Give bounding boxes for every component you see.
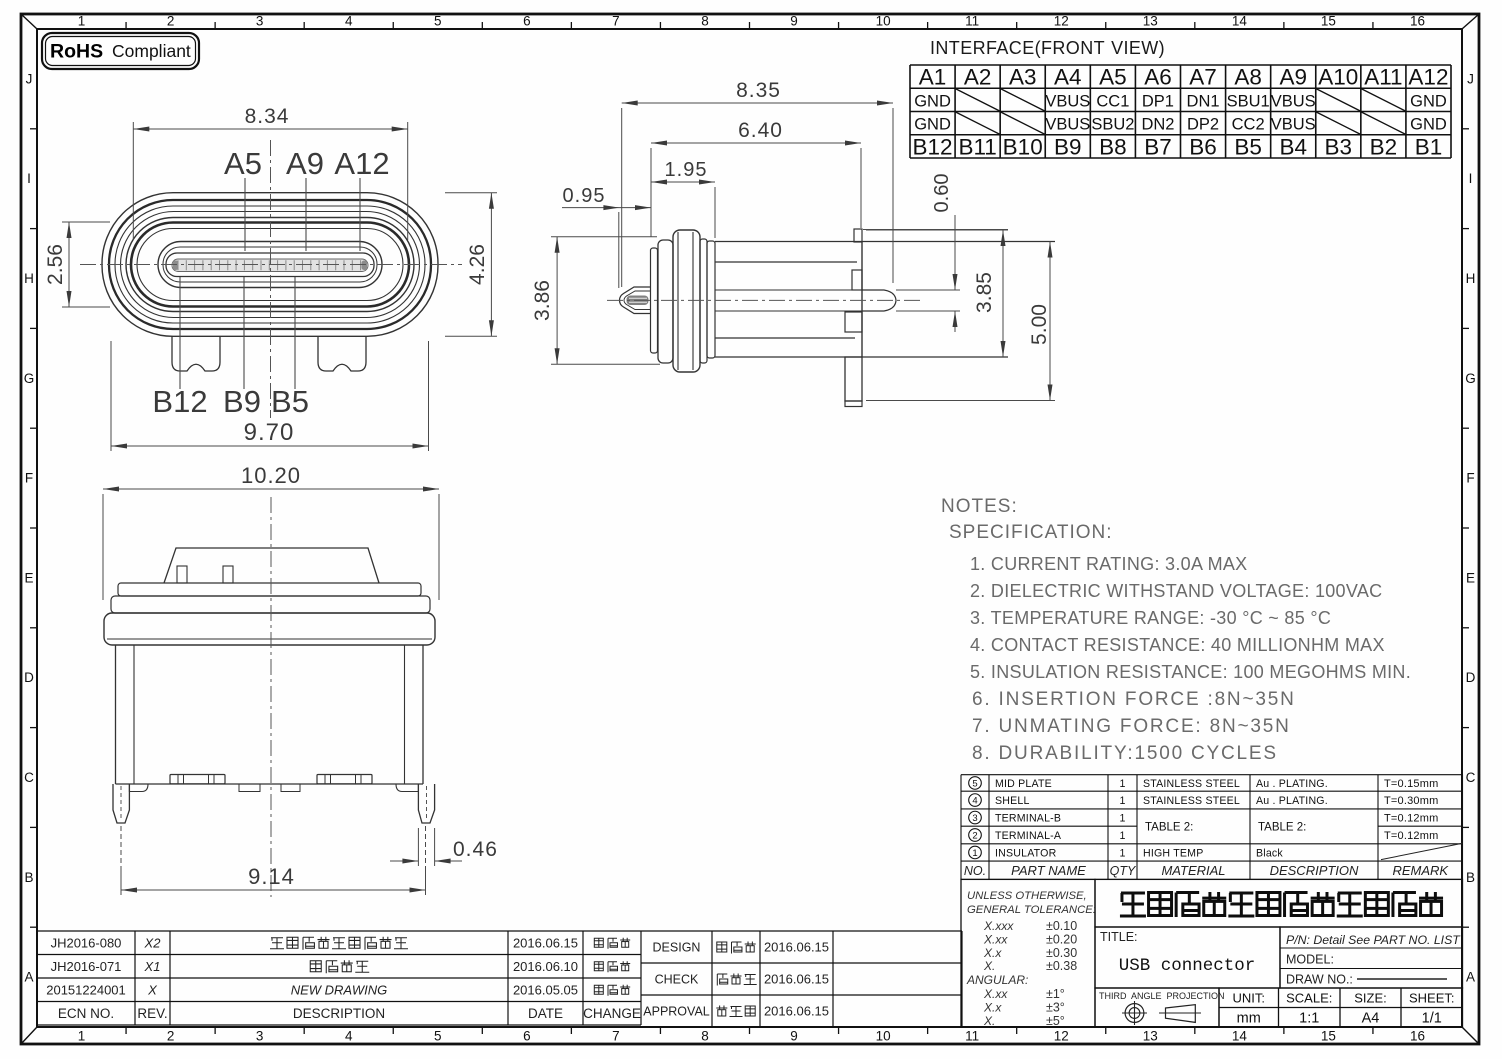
front view shell ring 3 bbox=[115, 206, 425, 323]
svg-text:2: 2 bbox=[167, 14, 175, 29]
parts row 1 INSULATOR bbox=[969, 846, 982, 859]
svg-text:C: C bbox=[1466, 770, 1476, 785]
svg-text:SIZE:: SIZE: bbox=[1354, 991, 1387, 1006]
svg-text:X.x: X.x bbox=[983, 1000, 1002, 1014]
dimension 1.95 bbox=[714, 187, 716, 238]
svg-text:B9: B9 bbox=[223, 384, 261, 419]
svg-text:DESCRIPTION: DESCRIPTION bbox=[1270, 863, 1359, 878]
svg-text:10.20: 10.20 bbox=[241, 463, 301, 488]
svg-text:8. DURABILITY:1500 CYCLES: 8. DURABILITY:1500 CYCLES bbox=[972, 743, 1278, 764]
svg-text:G: G bbox=[24, 371, 35, 386]
title cell bbox=[1095, 927, 1280, 988]
svg-text:CHANGE: CHANGE bbox=[583, 1006, 641, 1021]
front view tongue bbox=[166, 253, 374, 277]
dimension 8.34 bbox=[132, 122, 134, 240]
svg-text:GENERAL TOLERANCE:: GENERAL TOLERANCE: bbox=[967, 904, 1096, 916]
svg-text:I: I bbox=[1469, 171, 1473, 186]
svg-text:INTERFACE(FRONT VIEW): INTERFACE(FRONT VIEW) bbox=[930, 38, 1165, 58]
svg-text:±0.30: ±0.30 bbox=[1046, 946, 1077, 960]
bottom view body sides bbox=[115, 645, 117, 784]
svg-text:H: H bbox=[1466, 271, 1476, 286]
svg-text:1: 1 bbox=[78, 14, 86, 29]
svg-text:A: A bbox=[1466, 970, 1475, 985]
svg-text:Black: Black bbox=[1256, 847, 1283, 859]
parts row 5 MID PLATE bbox=[969, 777, 982, 790]
svg-text:6.40: 6.40 bbox=[738, 119, 783, 142]
front view shell ring 1 (outer) bbox=[102, 193, 438, 337]
front view left mounting leg bbox=[172, 336, 220, 371]
bottom view center notches bbox=[239, 784, 260, 792]
svg-text:1/1: 1/1 bbox=[1422, 1011, 1442, 1027]
svg-text:14: 14 bbox=[1232, 14, 1248, 29]
svg-text:1: 1 bbox=[1120, 778, 1126, 790]
svg-text:NOTES:: NOTES: bbox=[941, 496, 1018, 517]
svg-text:8: 8 bbox=[701, 14, 709, 29]
svg-text:T=0.30mm: T=0.30mm bbox=[1384, 795, 1438, 807]
svg-text:H: H bbox=[24, 271, 34, 286]
svg-text:X1: X1 bbox=[144, 959, 161, 974]
svg-text:A9: A9 bbox=[1279, 65, 1307, 90]
svg-text:2016.06.15: 2016.06.15 bbox=[764, 972, 829, 987]
front view cavity outer bbox=[158, 242, 382, 288]
svg-text:9: 9 bbox=[790, 1029, 798, 1044]
front view cavity inner bbox=[163, 247, 377, 282]
ruler column ticks bbox=[125, 22, 127, 29]
svg-text:±5°: ±5° bbox=[1046, 1014, 1065, 1028]
svg-text:±0.20: ±0.20 bbox=[1046, 932, 1077, 946]
svg-text:X.x: X.x bbox=[983, 946, 1002, 960]
front view shell ring 2 bbox=[109, 200, 431, 329]
svg-text:13: 13 bbox=[1143, 1029, 1158, 1044]
svg-text:0.46: 0.46 bbox=[453, 838, 498, 861]
side view shell inner bottom line bbox=[715, 337, 855, 339]
svg-text:2016.06.10: 2016.06.10 bbox=[513, 959, 578, 974]
svg-text:DP1: DP1 bbox=[1142, 92, 1174, 110]
svg-text:CC1: CC1 bbox=[1096, 92, 1129, 110]
svg-text:13: 13 bbox=[1143, 14, 1158, 29]
svg-text:MATERIAL: MATERIAL bbox=[1161, 863, 1225, 878]
svg-text:8.35: 8.35 bbox=[736, 79, 781, 102]
P/N cell bbox=[1280, 927, 1463, 988]
side view shell inner top line bbox=[715, 261, 857, 263]
bottom view vertical centerline bbox=[270, 497, 272, 897]
svg-text:2: 2 bbox=[972, 831, 977, 842]
bottom view shell flange bbox=[104, 613, 435, 645]
svg-text:B4: B4 bbox=[1279, 134, 1307, 159]
svg-text:TABLE 2:: TABLE 2: bbox=[1145, 821, 1193, 833]
bottom view left leg bbox=[113, 784, 129, 823]
svg-text:A8: A8 bbox=[1234, 65, 1262, 90]
svg-text:TABLE 2:: TABLE 2: bbox=[1258, 821, 1306, 833]
svg-text:NEW DRAWING: NEW DRAWING bbox=[291, 982, 388, 997]
svg-text:2016.06.15: 2016.06.15 bbox=[764, 1004, 829, 1019]
svg-text:B9: B9 bbox=[1054, 134, 1082, 159]
svg-text:0.95: 0.95 bbox=[563, 185, 606, 207]
svg-text:5: 5 bbox=[972, 778, 977, 789]
svg-text:A4: A4 bbox=[1362, 1011, 1380, 1027]
svg-text:THIRD ANGLE PROJECTION: THIRD ANGLE PROJECTION bbox=[1099, 991, 1225, 1001]
svg-text:B8: B8 bbox=[1099, 134, 1127, 159]
side view flange disc 2 bbox=[658, 240, 673, 363]
svg-text:INSULATOR: INSULATOR bbox=[995, 847, 1057, 859]
dimension 3.86 bbox=[551, 236, 657, 238]
parts row 3 TERMINAL-B bbox=[969, 811, 982, 824]
parts table grid bbox=[961, 775, 1463, 880]
svg-text:2016.06.15: 2016.06.15 bbox=[513, 935, 578, 950]
svg-text:2: 2 bbox=[167, 1029, 175, 1044]
svg-text:B11: B11 bbox=[958, 134, 996, 159]
svg-text:CC2: CC2 bbox=[1232, 116, 1265, 134]
svg-text:12: 12 bbox=[1054, 14, 1069, 29]
projection symbol circle bbox=[1125, 1004, 1144, 1023]
svg-text:B10: B10 bbox=[1003, 134, 1043, 159]
svg-text:MID PLATE: MID PLATE bbox=[995, 778, 1052, 790]
svg-text:TERMINAL-A: TERMINAL-A bbox=[995, 830, 1062, 842]
side view shell bottom line bbox=[715, 356, 1008, 358]
svg-text:9: 9 bbox=[790, 14, 798, 29]
svg-text:A11: A11 bbox=[1364, 65, 1402, 90]
svg-text:X.: X. bbox=[983, 959, 995, 973]
svg-text:SBU2: SBU2 bbox=[1091, 116, 1134, 134]
side view flange disc 1 bbox=[651, 248, 658, 353]
svg-text:A5: A5 bbox=[1099, 65, 1127, 90]
svg-text:T=0.15mm: T=0.15mm bbox=[1384, 778, 1438, 790]
svg-text:±3°: ±3° bbox=[1046, 1000, 1065, 1014]
svg-text:9.14: 9.14 bbox=[248, 864, 295, 889]
svg-text:15: 15 bbox=[1321, 14, 1336, 29]
front view shell ring 5 bbox=[126, 218, 414, 312]
front view shell ring 6 (heavy) bbox=[131, 223, 409, 307]
svg-text:1:1: 1:1 bbox=[1299, 1011, 1319, 1027]
svg-text:5. INSULATION RESISTANCE: 1: 5. INSULATION RESISTANCE: 100 MEGOHMS MI… bbox=[970, 662, 1411, 682]
RoHS badge inner frame bbox=[46, 37, 196, 66]
svg-text:UNLESS OTHERWISE,: UNLESS OTHERWISE, bbox=[967, 890, 1087, 902]
bottom view solder pad group left bbox=[170, 775, 225, 784]
svg-text:X.xx: X.xx bbox=[983, 987, 1008, 1001]
svg-text:B6: B6 bbox=[1189, 134, 1217, 159]
svg-text:4: 4 bbox=[345, 14, 353, 29]
svg-text:5.00: 5.00 bbox=[1028, 304, 1051, 345]
svg-text:SBU1: SBU1 bbox=[1227, 92, 1270, 110]
svg-text:5: 5 bbox=[434, 1029, 442, 1044]
svg-text:GND: GND bbox=[914, 116, 951, 134]
svg-text:A12: A12 bbox=[334, 146, 389, 181]
svg-text:JH2016-080: JH2016-080 bbox=[51, 935, 122, 950]
svg-text:1. CURRENT RATING: 3.0A MA: 1. CURRENT RATING: 3.0A MAX bbox=[970, 554, 1248, 574]
svg-text:DP2: DP2 bbox=[1187, 116, 1219, 134]
svg-text:D: D bbox=[24, 670, 34, 685]
side view shell top line bbox=[715, 241, 1055, 243]
svg-text:DN1: DN1 bbox=[1187, 92, 1220, 110]
bottom view plate 1 bbox=[118, 583, 421, 596]
svg-text:B5: B5 bbox=[271, 384, 309, 419]
svg-text:APPROVAL: APPROVAL bbox=[643, 1005, 710, 1019]
dimension 5.00 bbox=[866, 400, 1055, 402]
svg-text:1: 1 bbox=[1120, 847, 1126, 859]
svg-text:4: 4 bbox=[972, 796, 977, 807]
svg-text:JH2016-071: JH2016-071 bbox=[51, 959, 122, 974]
bottom view plate 2 bbox=[111, 596, 430, 613]
svg-text:A9: A9 bbox=[286, 146, 324, 181]
svg-text:B2: B2 bbox=[1370, 134, 1398, 159]
svg-text:Au . PLATING.: Au . PLATING. bbox=[1256, 778, 1328, 790]
svg-text:F: F bbox=[1466, 471, 1474, 486]
projection cell bbox=[1095, 988, 1219, 1027]
svg-text:DRAW NO.:: DRAW NO.: bbox=[1286, 973, 1353, 987]
svg-text:X: X bbox=[147, 982, 158, 997]
svg-text:1: 1 bbox=[1120, 812, 1126, 824]
side view PCB leg bbox=[845, 357, 862, 401]
dimension 4.26 bbox=[445, 192, 497, 194]
svg-text:10: 10 bbox=[876, 14, 891, 29]
svg-text:X.xx: X.xx bbox=[983, 932, 1008, 946]
svg-text:STAINLESS STEEL: STAINLESS STEEL bbox=[1143, 778, 1240, 790]
svg-text:B12: B12 bbox=[913, 134, 953, 159]
svg-text:6. INSERTION FORCE :8N~3: 6. INSERTION FORCE :8N~35N bbox=[972, 689, 1296, 710]
side view latch step bbox=[852, 270, 862, 290]
svg-text:12: 12 bbox=[1054, 1029, 1069, 1044]
side view top tab bbox=[854, 229, 862, 242]
svg-text:D: D bbox=[1466, 670, 1476, 685]
svg-text:5: 5 bbox=[434, 14, 442, 29]
parts row 2 TERMINAL-A bbox=[969, 829, 982, 842]
svg-text:REMARK: REMARK bbox=[1392, 863, 1449, 878]
svg-text:7: 7 bbox=[612, 1029, 620, 1044]
svg-text:SHELL: SHELL bbox=[995, 795, 1030, 807]
parts table remark diagonal bbox=[1381, 843, 1463, 859]
svg-text:Compliant: Compliant bbox=[112, 41, 191, 61]
svg-text:B3: B3 bbox=[1325, 134, 1353, 159]
svg-text:±0.38: ±0.38 bbox=[1046, 959, 1077, 973]
leader line B9 bbox=[243, 277, 245, 389]
dimension 9.14 bbox=[120, 826, 122, 868]
leader line A5 bbox=[244, 178, 246, 251]
svg-text:RoHS: RoHS bbox=[50, 41, 103, 63]
dimension 3.85 bbox=[866, 229, 1008, 231]
svg-text:X2: X2 bbox=[144, 935, 162, 950]
svg-text:7. UNMATING FORCE: 8N~35: 7. UNMATING FORCE: 8N~35N bbox=[972, 716, 1291, 737]
svg-text:A6: A6 bbox=[1144, 65, 1172, 90]
svg-text:PART NAME: PART NAME bbox=[1011, 863, 1086, 878]
svg-text:DESCRIPTION: DESCRIPTION bbox=[293, 1006, 385, 1021]
svg-text:A10: A10 bbox=[1318, 65, 1358, 90]
company name (Chinese) bbox=[1120, 893, 1146, 916]
svg-text:NO.: NO. bbox=[964, 864, 986, 878]
svg-text:E: E bbox=[1466, 570, 1475, 585]
side view bracket edge bbox=[861, 242, 863, 357]
svg-text:DATE: DATE bbox=[528, 1006, 563, 1021]
parts row 4 SHELL bbox=[969, 794, 982, 807]
svg-text:4: 4 bbox=[345, 1029, 353, 1044]
side view flange disc 3 (main) bbox=[673, 230, 700, 372]
leader line A12 bbox=[359, 178, 361, 251]
svg-text:P/N: Detail See PART NO. L: P/N: Detail See PART NO. LIST bbox=[1286, 933, 1461, 947]
svg-text:7: 7 bbox=[612, 14, 620, 29]
leader line A9 bbox=[305, 178, 307, 251]
svg-text:B: B bbox=[24, 870, 33, 885]
svg-text:E: E bbox=[24, 570, 33, 585]
front view horizontal centerline bbox=[80, 264, 462, 266]
svg-text:USB connector: USB connector bbox=[1119, 956, 1256, 976]
svg-text:20151224001: 20151224001 bbox=[46, 982, 126, 997]
dimension 10.20 bbox=[102, 494, 104, 600]
projection symbol cone bbox=[1166, 1005, 1196, 1023]
svg-text:B1: B1 bbox=[1415, 134, 1443, 159]
svg-text:B7: B7 bbox=[1144, 134, 1172, 159]
svg-text:A3: A3 bbox=[1009, 65, 1037, 90]
svg-text:8.34: 8.34 bbox=[245, 105, 290, 128]
svg-text:TERMINAL-B: TERMINAL-B bbox=[995, 812, 1061, 824]
svg-text:G: G bbox=[1465, 371, 1476, 386]
dimension 0.60 bbox=[896, 289, 960, 291]
dimension 0.95 bbox=[618, 212, 620, 288]
unit/scale/size/sheet cells bbox=[1219, 988, 1463, 1027]
sign block grid bbox=[641, 931, 962, 1027]
svg-text:VBUS: VBUS bbox=[1045, 92, 1090, 110]
svg-text:3: 3 bbox=[972, 813, 977, 824]
svg-text:3: 3 bbox=[256, 1029, 264, 1044]
side view left terminal pin bullet bbox=[620, 287, 651, 314]
svg-text:9.70: 9.70 bbox=[244, 419, 295, 446]
tolerance box bbox=[961, 879, 1095, 1027]
svg-text:3: 3 bbox=[256, 14, 264, 29]
dimension 0.46 bbox=[417, 828, 419, 866]
ruler row ticks bbox=[30, 128, 37, 130]
svg-text:3. TEMPERATURE RANGE: -30 °: 3. TEMPERATURE RANGE: -30 °C ~ 85 °C bbox=[970, 608, 1331, 628]
svg-text:SPECIFICATION:: SPECIFICATION: bbox=[949, 522, 1113, 543]
bottom view mid-plate trapezoid bbox=[164, 548, 379, 583]
svg-text:A: A bbox=[24, 970, 33, 985]
svg-text:1: 1 bbox=[1120, 795, 1126, 807]
side view flange disc 4 bbox=[700, 239, 707, 363]
svg-text:3.86: 3.86 bbox=[531, 280, 554, 321]
dimension 9.70 bbox=[110, 341, 112, 451]
svg-text:VBUS: VBUS bbox=[1271, 116, 1316, 134]
svg-text:1: 1 bbox=[972, 848, 977, 859]
svg-text:TITLE:: TITLE: bbox=[1100, 930, 1138, 944]
svg-text:VBUS: VBUS bbox=[1045, 116, 1090, 134]
svg-text:SCALE:: SCALE: bbox=[1286, 991, 1332, 1006]
svg-text:B5: B5 bbox=[1234, 134, 1262, 159]
svg-text:14: 14 bbox=[1232, 1029, 1248, 1044]
svg-text:A4: A4 bbox=[1054, 65, 1082, 90]
svg-text:2. DIELECTRIC WITHSTAND VOL: 2. DIELECTRIC WITHSTAND VOLTAGE: 100VAC bbox=[970, 581, 1382, 601]
front view pin strip bbox=[172, 259, 368, 272]
svg-text:I: I bbox=[27, 171, 31, 186]
svg-text:A5: A5 bbox=[224, 146, 262, 181]
svg-text:VBUS: VBUS bbox=[1271, 92, 1316, 110]
svg-text:MODEL:: MODEL: bbox=[1286, 953, 1334, 967]
front view shell ring 4 bbox=[121, 212, 420, 318]
svg-text:15: 15 bbox=[1321, 1029, 1336, 1044]
svg-text:J: J bbox=[1467, 71, 1474, 86]
svg-text:T=0.12mm: T=0.12mm bbox=[1384, 830, 1438, 842]
svg-text:DN2: DN2 bbox=[1141, 116, 1174, 134]
svg-text:X.xxx: X.xxx bbox=[983, 919, 1014, 933]
bottom view right leg bbox=[418, 784, 434, 823]
svg-text:11: 11 bbox=[965, 14, 979, 29]
revision table grid bbox=[37, 931, 641, 1025]
front view pin strip contacts bbox=[178, 260, 361, 270]
bottom view solder pad group right bbox=[317, 775, 372, 784]
side view flange disc 5 bbox=[707, 241, 715, 358]
svg-text:UNIT:: UNIT: bbox=[1233, 991, 1266, 1006]
side view right terminal pin bullet bbox=[862, 290, 896, 311]
svg-text:A12: A12 bbox=[1408, 65, 1448, 90]
svg-text:10: 10 bbox=[876, 1029, 891, 1044]
svg-text:1: 1 bbox=[1120, 830, 1126, 842]
svg-text:REV.: REV. bbox=[137, 1006, 167, 1021]
corner diagonals bbox=[21, 14, 37, 29]
svg-text:4.26: 4.26 bbox=[466, 244, 489, 285]
svg-text:QTY: QTY bbox=[1110, 864, 1137, 878]
bottom view edge steps near legs bbox=[129, 784, 148, 792]
svg-text:ECN NO.: ECN NO. bbox=[58, 1006, 114, 1021]
bottom view bottom edge bbox=[116, 783, 424, 785]
svg-text:CHECK: CHECK bbox=[655, 973, 699, 987]
svg-text:Au . PLATING.: Au . PLATING. bbox=[1256, 795, 1328, 807]
bottom view mid-plate tabs bbox=[177, 566, 187, 583]
svg-text:J: J bbox=[26, 71, 33, 86]
dimension 2.56 bbox=[62, 221, 110, 223]
dimension 6.40 bbox=[650, 148, 652, 237]
svg-text:A2: A2 bbox=[964, 65, 992, 90]
svg-text:±1°: ±1° bbox=[1046, 987, 1065, 1001]
svg-text:HIGH TEMP: HIGH TEMP bbox=[1143, 847, 1203, 859]
svg-text:1: 1 bbox=[78, 1029, 86, 1044]
interface table diagonals (unused pins) bbox=[956, 89, 1000, 111]
svg-text:1.95: 1.95 bbox=[665, 159, 708, 181]
svg-text:16: 16 bbox=[1410, 14, 1425, 29]
svg-text:STAINLESS STEEL: STAINLESS STEEL bbox=[1143, 795, 1240, 807]
company name box bbox=[1095, 879, 1463, 927]
side view lower step bbox=[845, 312, 862, 332]
svg-text:B: B bbox=[1466, 870, 1475, 885]
svg-text:T=0.12mm: T=0.12mm bbox=[1384, 812, 1438, 824]
svg-text:0.60: 0.60 bbox=[931, 174, 953, 213]
svg-text:X.: X. bbox=[983, 1014, 995, 1028]
dimension 8.35 bbox=[621, 108, 623, 287]
svg-text:6: 6 bbox=[523, 1029, 531, 1044]
svg-text:mm: mm bbox=[1237, 1011, 1261, 1027]
svg-text:B12: B12 bbox=[152, 384, 207, 419]
leader line B12 bbox=[179, 277, 181, 389]
svg-text:F: F bbox=[25, 471, 33, 486]
svg-text:±0.10: ±0.10 bbox=[1046, 919, 1077, 933]
leader line B5 bbox=[294, 277, 296, 389]
svg-text:2.56: 2.56 bbox=[44, 244, 67, 285]
svg-text:16: 16 bbox=[1410, 1029, 1425, 1044]
front view right mounting leg bbox=[318, 336, 366, 371]
svg-text:2016.06.15: 2016.06.15 bbox=[764, 940, 829, 955]
svg-text:C: C bbox=[24, 770, 34, 785]
side view terminal pin bottom line bbox=[715, 310, 884, 312]
svg-text:3.85: 3.85 bbox=[973, 272, 996, 313]
svg-text:4. CONTACT RESISTANCE: 40: 4. CONTACT RESISTANCE: 40 MILLIONHM MAX bbox=[970, 635, 1385, 655]
svg-text:11: 11 bbox=[965, 1029, 979, 1044]
svg-text:A7: A7 bbox=[1189, 65, 1217, 90]
svg-text:GND: GND bbox=[1410, 92, 1447, 110]
svg-text:GND: GND bbox=[1410, 116, 1447, 134]
RoHS badge outer frame bbox=[42, 33, 199, 69]
svg-text:SHEET:: SHEET: bbox=[1409, 991, 1455, 1006]
side view centerline bbox=[607, 299, 920, 301]
svg-text:8: 8 bbox=[701, 1029, 709, 1044]
svg-text:GND: GND bbox=[914, 92, 951, 110]
front view shell ring 7 bbox=[137, 229, 403, 301]
svg-text:A1: A1 bbox=[919, 65, 947, 90]
svg-text:2016.05.05: 2016.05.05 bbox=[513, 982, 578, 997]
